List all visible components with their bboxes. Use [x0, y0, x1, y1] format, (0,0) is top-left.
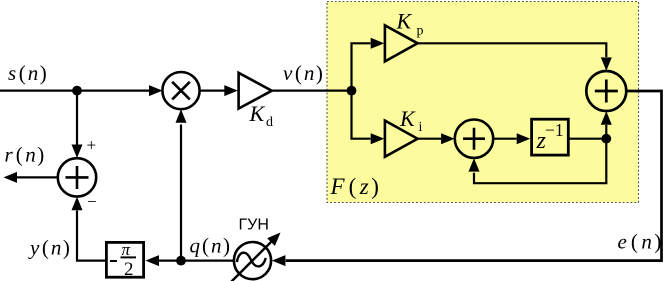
wire multiplier to Kd	[200, 89, 225, 91]
svg-text:y(n): y(n)	[28, 236, 70, 260]
arrow into phase shift block	[146, 255, 160, 266]
arrow into multiplier	[149, 85, 163, 96]
loop filter box F(z)	[327, 2, 639, 203]
wire VCO to phase shift block	[158, 260, 234, 262]
amplifier Ki triangle	[385, 121, 418, 157]
node A	[72, 86, 82, 96]
svg-text:π: π	[122, 240, 131, 259]
wire node A down to adder	[76, 91, 78, 145]
svg-text:d: d	[266, 115, 273, 130]
arrow into big adder top	[601, 57, 612, 71]
plus symbol inside adder	[66, 166, 89, 189]
wire big adder output to feedback bottom	[286, 91, 662, 261]
wire from y(n) line up into adder bottom	[77, 211, 105, 261]
svg-text:q(n): q(n)	[190, 233, 231, 257]
wire node D up to big adder bottom	[605, 125, 607, 139]
fraction bar of -pi/2	[121, 256, 137, 258]
svg-text:p: p	[417, 24, 424, 39]
arrow into VCO right	[272, 255, 286, 266]
wire node C up to Kp branch	[352, 43, 371, 90]
svg-text:−1: −1	[545, 120, 564, 140]
arrow r(n) output	[4, 172, 18, 183]
wire node C down to Ki branch	[352, 91, 371, 139]
arrow into big adder bottom	[601, 111, 612, 125]
svg-text:+: +	[87, 136, 97, 155]
arrow into small adder	[441, 133, 455, 144]
small adder circle	[455, 120, 493, 158]
arrow into Kp	[371, 38, 385, 49]
wire s(n) input	[0, 89, 150, 91]
svg-text:2: 2	[124, 259, 134, 280]
wire delay to node D	[569, 138, 606, 140]
node D	[601, 134, 611, 144]
X symbol inside multiplier	[172, 82, 190, 100]
svg-text:ГУН: ГУН	[239, 216, 269, 233]
sine symbol inside VCO	[237, 253, 266, 267]
arrow into Ki	[371, 133, 385, 144]
svg-text:s(n): s(n)	[8, 61, 47, 85]
svg-text:−: −	[87, 192, 97, 211]
plus symbol inside small adder	[463, 128, 485, 150]
svg-text:K: K	[249, 101, 266, 126]
svg-text:r(n): r(n)	[5, 143, 45, 167]
plus symbol inside big adder	[595, 80, 618, 103]
node B	[176, 256, 186, 266]
wire Kd to node C	[272, 89, 352, 91]
arrow into multiplier bottom	[176, 109, 187, 123]
delay block z^-1	[532, 119, 569, 155]
big adder circle	[586, 71, 626, 111]
arrow into delay block	[517, 133, 531, 144]
minus of -pi/2	[110, 260, 117, 262]
VCO diagonal arrow shaft	[229, 242, 271, 281]
svg-text:i: i	[419, 120, 423, 135]
wire Kp to big adder	[418, 43, 607, 57]
wire Ki to small adder	[418, 138, 441, 140]
arrow into small adder bottom	[469, 158, 480, 172]
phase shift block -pi/2	[106, 242, 143, 277]
adder (subtractor) circle	[58, 158, 96, 196]
svg-text:v(n): v(n)	[283, 61, 323, 85]
svg-text:F(z): F(z)	[330, 174, 379, 199]
wire small adder to delay	[493, 138, 516, 140]
amplifier Kp triangle	[385, 25, 418, 61]
VCO diagonal arrowhead	[267, 233, 280, 246]
arrow into Kd	[224, 85, 238, 96]
svg-text:e(n): e(n)	[618, 229, 662, 253]
VCO circle	[234, 242, 271, 279]
amplifier Kd triangle	[239, 73, 272, 109]
arrow into adder bottom	[72, 197, 83, 211]
wire node B up to multiplier	[180, 125, 182, 261]
node C	[347, 86, 357, 96]
wire feedback node D to small adder	[474, 139, 606, 184]
wire r(n) output	[17, 176, 58, 178]
arrow into adder top	[72, 145, 83, 159]
svg-text:K: K	[396, 9, 413, 34]
svg-text:K: K	[399, 106, 416, 131]
multiplier circle	[162, 72, 199, 109]
